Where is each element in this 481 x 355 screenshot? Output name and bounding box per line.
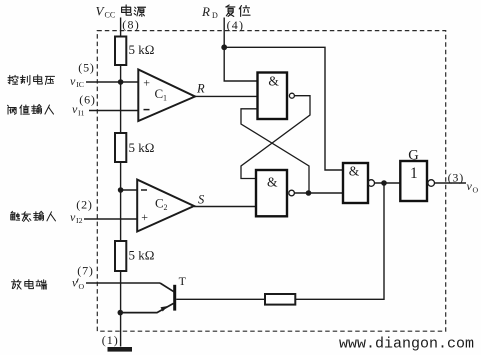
svg-text:D: D — [212, 11, 218, 20]
svg-text:www.diangon.com: www.diangon.com — [339, 335, 474, 352]
vIC terminal label — [70, 74, 84, 89]
wire U1 output cross-coupling to U2 input — [241, 96, 310, 179]
trigger input label — [11, 211, 56, 221]
NAND gate U2 (lower) — [256, 170, 287, 216]
wire R1 to R2 — [120, 65, 122, 133]
vO' terminal label — [72, 276, 85, 292]
discharge label — [12, 280, 47, 290]
resistor R2 — [115, 133, 154, 162]
wire control voltage — [86, 81, 138, 83]
svg-text:(8): (8) — [122, 17, 140, 31]
svg-text:R: R — [196, 82, 205, 96]
wire reset to upper gate — [224, 47, 257, 81]
svg-text:+: + — [143, 75, 150, 89]
resistor R1 — [115, 37, 154, 66]
control voltage label — [8, 75, 54, 85]
NAND gate U3 (output stage) — [343, 163, 368, 203]
output bubble U2 — [289, 190, 295, 196]
svg-text:T: T — [179, 274, 187, 288]
wire R3 to ground — [120, 271, 122, 347]
svg-text:v: v — [70, 74, 76, 88]
svg-text:1: 1 — [163, 94, 167, 103]
inverter G — [400, 161, 427, 201]
svg-text:&: & — [267, 174, 278, 189]
output bubble U1 — [289, 93, 294, 98]
comparator C2 — [137, 180, 194, 232]
wire C2 minus input — [121, 189, 138, 191]
svg-text:C: C — [155, 196, 164, 211]
svg-text:(3): (3) — [448, 170, 464, 184]
wire reset rail to output gate — [224, 47, 343, 170]
wire output to discharge resistor — [295, 183, 384, 299]
vI1 terminal label — [72, 102, 85, 117]
svg-text:(6): (6) — [79, 92, 95, 106]
svg-text:2: 2 — [164, 203, 168, 212]
pin 4 wire — [223, 18, 225, 48]
wire threshold — [89, 110, 138, 112]
svg-text:C: C — [155, 86, 164, 101]
svg-text:(7): (7) — [77, 264, 93, 278]
svg-text:O: O — [79, 282, 85, 291]
ground — [108, 347, 133, 352]
svg-text:(1): (1) — [102, 333, 119, 347]
output bubble U3 — [368, 180, 375, 187]
wire R2 to R3 — [120, 162, 122, 241]
svg-text:5 kΩ: 5 kΩ — [129, 140, 155, 155]
Vcc supply label — [96, 4, 146, 20]
svg-text:R: R — [201, 4, 210, 19]
svg-text:IC: IC — [76, 80, 84, 89]
svg-text:1: 1 — [410, 165, 418, 182]
wire U3 to G — [375, 182, 401, 184]
pin 8 wire — [120, 18, 122, 37]
wire R4 to base — [176, 298, 265, 300]
resistor R4 — [265, 294, 295, 305]
svg-text:(2): (2) — [76, 197, 92, 211]
wire discharge (collector) — [86, 282, 160, 284]
node dot output branch — [381, 180, 387, 186]
svg-text:+: + — [141, 210, 148, 224]
output bubble G — [428, 180, 435, 187]
svg-text:(4): (4) — [227, 18, 245, 32]
wire U2 output cross-coupling to U1 input — [241, 109, 309, 193]
vO terminal label — [467, 179, 479, 194]
vI2 terminal label — [70, 210, 83, 225]
threshold input label — [8, 105, 54, 115]
transistor T — [120, 274, 187, 312]
wire trigger — [84, 218, 137, 220]
NAND gate U1 (upper) — [258, 73, 288, 120]
wire S to flip-flop — [194, 206, 256, 208]
resistor R3 — [115, 241, 154, 271]
svg-text:I2: I2 — [76, 216, 83, 225]
node dot reset — [221, 44, 227, 50]
wire R to flip-flop — [195, 95, 258, 97]
svg-text:O: O — [473, 185, 479, 194]
svg-text:5 kΩ: 5 kΩ — [129, 248, 155, 263]
dashed IC boundary — [97, 31, 445, 332]
svg-text:5 kΩ: 5 kΩ — [129, 42, 155, 57]
Rd reset label — [201, 4, 250, 20]
wire output pin 3 — [435, 182, 466, 184]
svg-text:&: & — [349, 163, 360, 178]
node dot C2 minus junction — [118, 187, 124, 193]
svg-text:(5): (5) — [78, 60, 94, 74]
svg-text:CC: CC — [105, 11, 116, 20]
node dot emitter junction — [118, 310, 124, 316]
node dot Q feedback — [306, 190, 312, 196]
svg-text:S: S — [198, 193, 205, 207]
svg-text:&: & — [268, 74, 279, 89]
comparator C1 — [138, 70, 195, 122]
wire U2 output to U3 — [294, 192, 343, 194]
svg-text:I1: I1 — [78, 108, 85, 117]
node dot control junction — [118, 79, 124, 85]
